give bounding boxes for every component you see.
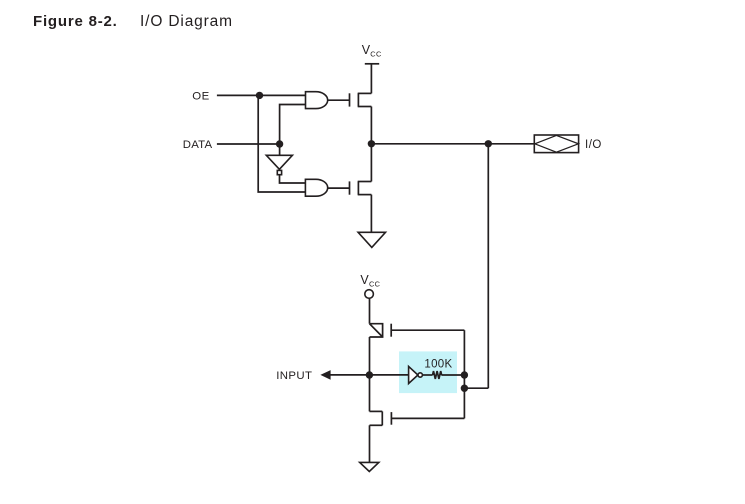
node INPUT junction (366, 371, 373, 378)
arrow INPUT (output direction) (320, 370, 330, 380)
svg-text:Figure 8-2.: Figure 8-2. (33, 13, 118, 30)
wire DATA junction down to inverter U1 (279, 144, 281, 155)
wire INPUT node to inverter U2 (330, 374, 409, 376)
AND gate G1 (306, 92, 328, 109)
svg-text:INPUT: INPUT (276, 370, 312, 382)
node feedback on rail (461, 385, 468, 392)
svg-text:VCC: VCC (360, 273, 380, 288)
ground (bottom section) (360, 462, 379, 471)
wire VCC to Q1 drain (370, 64, 372, 94)
node output on rail (368, 140, 375, 147)
wire inverter U1 output to AND2 input (280, 175, 306, 183)
svg-text:I/O Diagram: I/O Diagram (140, 13, 233, 30)
node OE junction (256, 92, 263, 99)
wire Q1 source to output node (370, 107, 372, 144)
wire VCC circle to Q3 (369, 298, 371, 323)
wire U2 output to resistor R1 (422, 374, 432, 376)
wire output node to NMOS Q2 (370, 144, 372, 182)
svg-text:DATA: DATA (183, 139, 213, 151)
wire feedback node to I/O branch (464, 387, 488, 389)
transistor Q4 (bus-hold n-channel) (370, 411, 392, 425)
transistor Q3 (bus-hold p-channel) (370, 324, 392, 337)
wire OE to AND1 (217, 94, 306, 96)
wire output node to I/O pad (371, 143, 534, 145)
wire OE junction down to AND2 input (258, 95, 305, 192)
wire Q2 source to ground (370, 195, 372, 233)
figure caption (33, 13, 233, 30)
svg-text:OE: OE (192, 90, 209, 102)
wire I/O branch down to bus-hold (487, 144, 489, 388)
transistor Q2 (n-channel pull-down) (350, 181, 372, 194)
wire Q3 drain to INPUT node (369, 337, 371, 411)
svg-text:100K: 100K (424, 359, 452, 371)
resistor R1 zigzag (433, 371, 442, 379)
wire Q3 gate lead to right rail (391, 329, 464, 331)
wire G1 output to Q1 gate (328, 99, 350, 101)
I/O pad symbol (534, 135, 578, 153)
wire Q4 gate lead (391, 417, 464, 419)
wire G2 output to Q2 gate (328, 187, 350, 189)
wire DATA junction up to AND1 input (280, 105, 306, 145)
svg-text:VCC: VCC (362, 43, 382, 58)
node DATA junction (276, 140, 283, 147)
right rail (bus-hold gates) (463, 330, 465, 418)
node I/O branch (485, 140, 492, 147)
VCC supply (top) (362, 43, 382, 64)
ground (top section) (358, 232, 385, 247)
inverter U2 (bus-hold) (409, 366, 423, 383)
wire Q4 source to ground (369, 425, 371, 462)
VCC supply (bottom) (360, 273, 380, 298)
inverter U1 (data invert) (266, 155, 292, 174)
wire R1 to right rail (441, 374, 464, 376)
transistor Q1 (p-channel pull-up) (350, 93, 372, 106)
svg-text:I/O: I/O (585, 139, 602, 151)
AND gate G2 (305, 179, 327, 196)
bus-hold highlight box (399, 351, 457, 393)
wire DATA to junction (217, 143, 280, 145)
node R1 output on rail (461, 371, 468, 378)
